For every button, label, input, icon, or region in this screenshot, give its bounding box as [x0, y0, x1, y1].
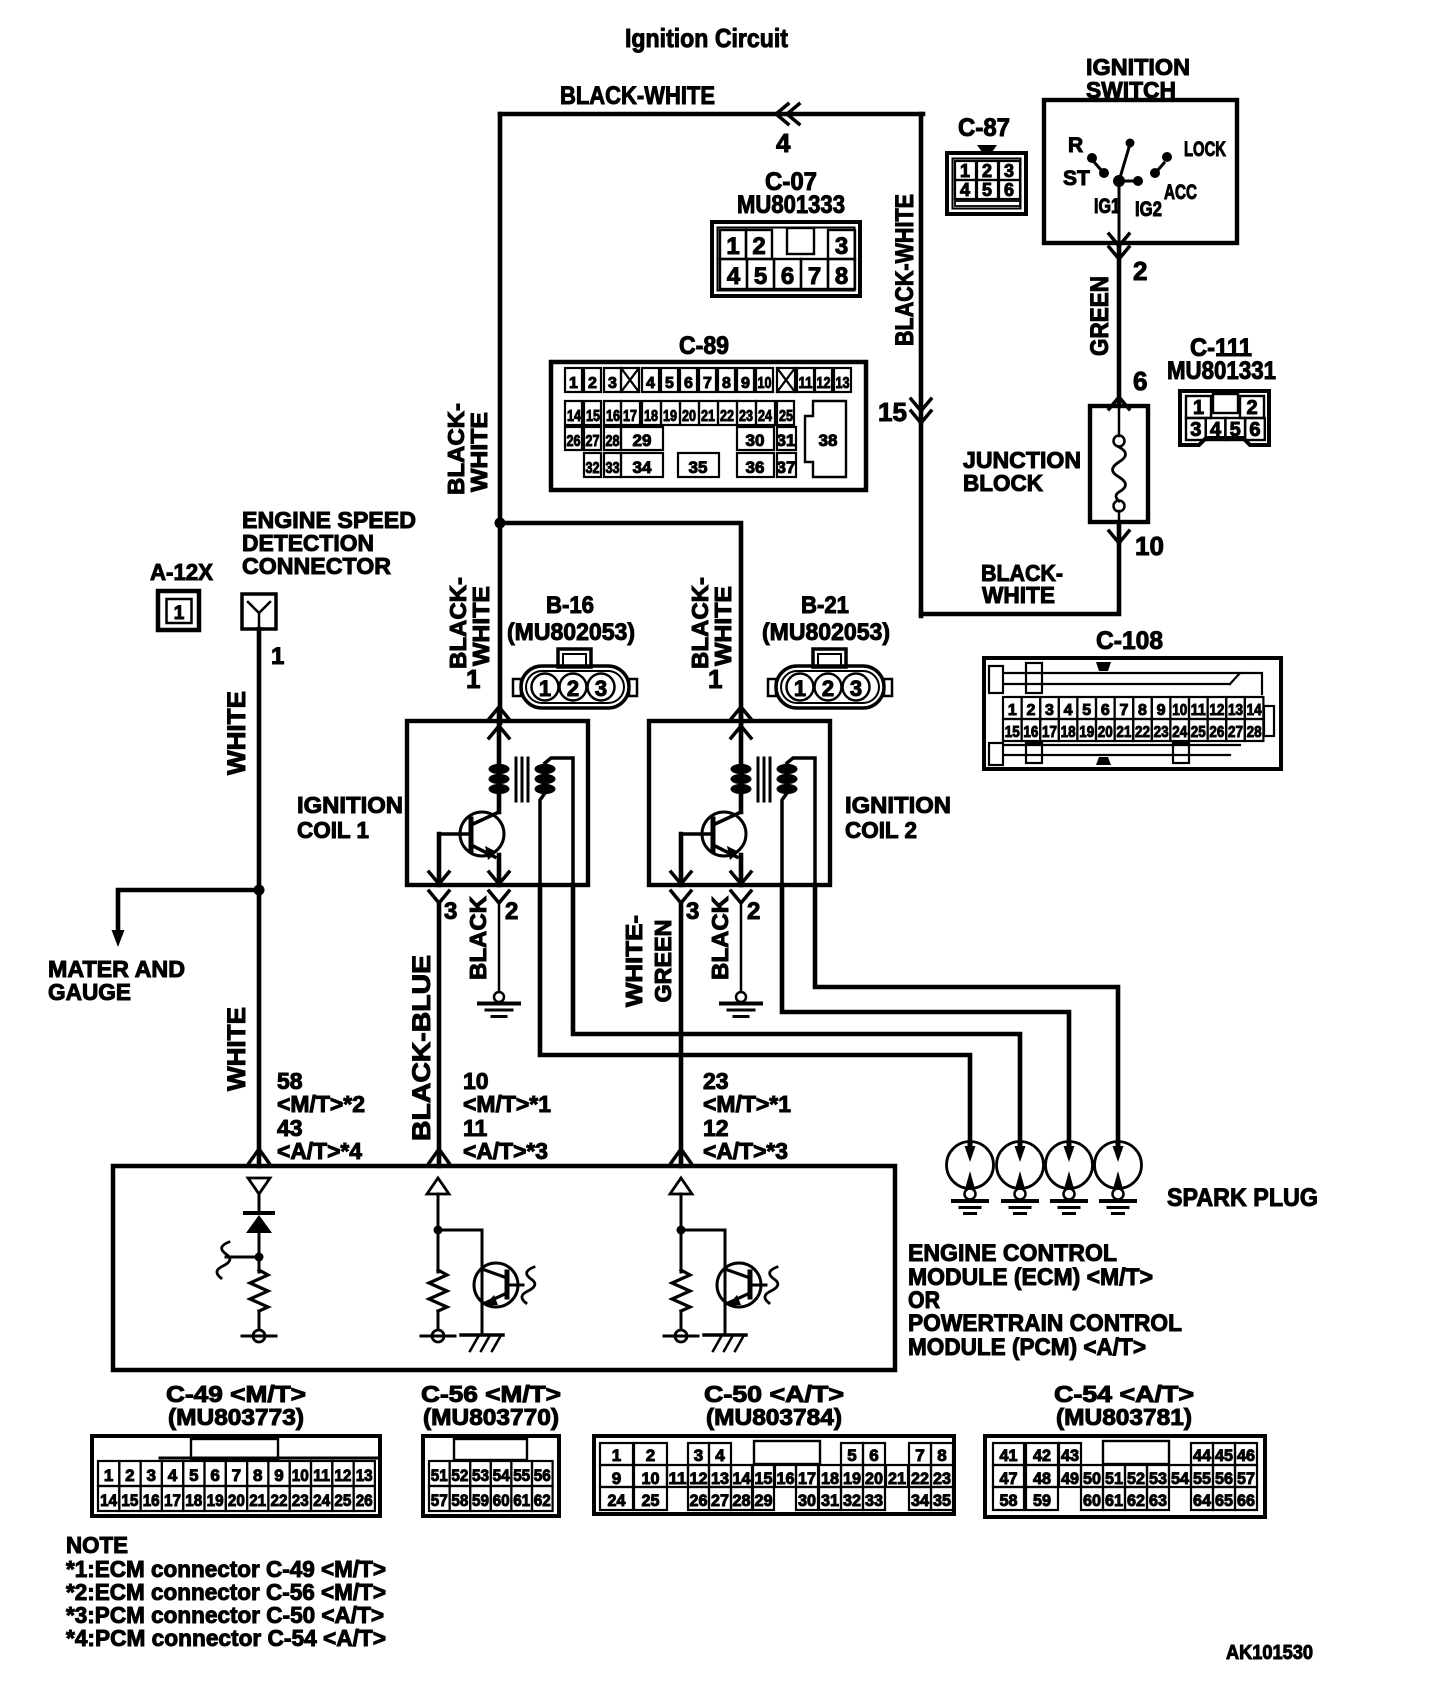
svg-text:6: 6 [1133, 366, 1147, 396]
svg-text:3: 3 [608, 375, 617, 392]
node (ECM diode branch) [255, 1253, 264, 1262]
svg-text:2: 2 [505, 898, 518, 925]
svg-text:13: 13 [1228, 702, 1243, 719]
svg-text:2: 2 [1133, 256, 1147, 286]
svg-text:7: 7 [915, 1446, 924, 1465]
svg-text:50: 50 [1083, 1469, 1101, 1488]
svg-text:63: 63 [1149, 1491, 1167, 1510]
svg-text:(MU803770): (MU803770) [423, 1404, 559, 1430]
svg-text:3: 3 [1004, 161, 1014, 181]
resistor (ECM left) [250, 1270, 268, 1311]
svg-text:7: 7 [703, 375, 712, 392]
svg-text:14: 14 [100, 1491, 117, 1510]
svg-text:61: 61 [1105, 1491, 1123, 1510]
wire: coil2 secondary to spark plug 4 [815, 885, 1118, 1146]
svg-text:MU801333: MU801333 [737, 191, 845, 219]
svg-text:WHITE: WHITE [982, 582, 1055, 608]
svg-text:<M/T>*1: <M/T>*1 [703, 1091, 791, 1117]
svg-text:49: 49 [1061, 1469, 1079, 1488]
svg-text:2: 2 [588, 375, 597, 392]
svg-text:20: 20 [228, 1491, 245, 1510]
svg-text:2: 2 [752, 233, 765, 260]
svg-text:(MU802053): (MU802053) [507, 619, 635, 646]
svg-text:60: 60 [493, 1491, 510, 1510]
svg-text:24: 24 [608, 1491, 627, 1510]
svg-text:7: 7 [808, 263, 821, 290]
svg-text:34: 34 [633, 458, 652, 477]
svg-text:54: 54 [1171, 1469, 1190, 1488]
svg-text:ST: ST [1063, 167, 1090, 190]
svg-text:66: 66 [1237, 1491, 1255, 1510]
svg-text:58: 58 [451, 1491, 468, 1510]
svg-text:24: 24 [758, 408, 772, 425]
svg-text:31: 31 [777, 431, 796, 450]
svg-text:SPARK PLUG: SPARK PLUG [1167, 1184, 1318, 1212]
svg-text:9: 9 [741, 375, 750, 392]
svg-text:18: 18 [185, 1491, 202, 1510]
svg-text:55: 55 [1193, 1469, 1211, 1488]
svg-text:15: 15 [121, 1491, 138, 1510]
svg-text:19: 19 [207, 1491, 224, 1510]
Coil 1 secondary leads [545, 758, 573, 885]
svg-text:8: 8 [722, 375, 731, 392]
svg-text:2: 2 [125, 1466, 134, 1485]
wire: WHITE-GREEN coil2 pin3 to ECM [679, 903, 684, 1166]
svg-text:23: 23 [739, 408, 753, 425]
svg-text:1: 1 [104, 1466, 113, 1485]
inline connector chevrons on right vertical, pin 15 [911, 399, 931, 411]
svg-text:MODULE (PCM) <A/T>: MODULE (PCM) <A/T> [908, 1334, 1146, 1361]
svg-text:4: 4 [1210, 419, 1222, 441]
svg-text:<M/T>*1: <M/T>*1 [463, 1091, 551, 1117]
svg-text:(MU802053): (MU802053) [762, 619, 890, 646]
svg-text:(MU803781): (MU803781) [1056, 1404, 1192, 1430]
svg-text:24: 24 [1172, 724, 1187, 741]
svg-text:16: 16 [1023, 724, 1038, 741]
svg-text:1: 1 [726, 233, 739, 260]
svg-text:22: 22 [911, 1469, 929, 1488]
svg-text:3: 3 [835, 233, 848, 260]
switch contact LOCK [1162, 152, 1172, 162]
svg-text:45: 45 [1215, 1446, 1233, 1465]
svg-text:5: 5 [665, 375, 674, 392]
svg-text:2: 2 [822, 676, 834, 701]
wire: BLACK-BLUE coil1 pin3 to ECM [437, 903, 442, 1166]
svg-text:23: 23 [933, 1469, 951, 1488]
connector C-87 body [947, 153, 1026, 214]
diode (ECM) [245, 1211, 273, 1215]
svg-text:15: 15 [755, 1469, 773, 1488]
C-50 pins row3 [600, 1487, 633, 1510]
resistor (ECM driver) [672, 1270, 690, 1311]
svg-text:41: 41 [1000, 1446, 1018, 1465]
svg-text:A-12X: A-12X [150, 559, 214, 585]
ground (Coil 2 pin2) [740, 905, 743, 992]
svg-text:15: 15 [1005, 724, 1020, 741]
svg-text:1: 1 [569, 375, 578, 392]
svg-text:C-108: C-108 [1096, 627, 1163, 655]
ignition switch box [1044, 100, 1237, 243]
C-54 pins row3 [993, 1487, 1024, 1510]
svg-text:14: 14 [567, 408, 581, 425]
svg-text:1: 1 [271, 643, 284, 670]
wire: bottom horizontal to junction block [921, 524, 1119, 614]
svg-text:27: 27 [1228, 724, 1243, 741]
wire: branch to mater and gauge [118, 890, 259, 932]
wire: WHITE from engine speed detection connector [257, 629, 262, 890]
svg-text:28: 28 [1247, 724, 1262, 741]
svg-text:BLACK: BLACK [465, 896, 491, 980]
wire: WHITE continues to ECM [257, 890, 262, 1166]
ground (Coil 1 pin2) [498, 905, 501, 992]
node [434, 1226, 443, 1235]
svg-text:COIL 1: COIL 1 [297, 817, 369, 843]
svg-text:28: 28 [733, 1491, 751, 1510]
svg-text:<M/T>*2: <M/T>*2 [277, 1091, 365, 1117]
svg-text:26: 26 [567, 433, 581, 450]
svg-text:10: 10 [1172, 702, 1187, 719]
svg-text:8: 8 [937, 1446, 946, 1465]
C-50 pins row1 [600, 1443, 633, 1465]
svg-text:35: 35 [689, 458, 708, 477]
C-108 pins row1 [1003, 697, 1022, 719]
svg-text:61: 61 [513, 1491, 530, 1510]
C-07 pins row2 [720, 259, 747, 289]
svg-text:52: 52 [451, 1466, 468, 1485]
svg-text:17: 17 [798, 1469, 816, 1488]
svg-text:ENGINE CONTROL: ENGINE CONTROL [908, 1240, 1117, 1267]
svg-text:30: 30 [798, 1491, 816, 1510]
svg-text:18: 18 [1061, 724, 1076, 741]
svg-text:10: 10 [1135, 531, 1164, 561]
svg-text:18: 18 [644, 408, 658, 425]
junction node (500,523) [495, 518, 506, 529]
svg-text:2: 2 [567, 676, 579, 701]
C-89 pin 38 cavity [805, 401, 846, 477]
svg-text:18: 18 [821, 1469, 839, 1488]
svg-text:6: 6 [210, 1466, 219, 1485]
svg-text:12: 12 [1209, 702, 1224, 719]
svg-text:46: 46 [1237, 1446, 1255, 1465]
svg-text:2: 2 [747, 898, 760, 925]
svg-text:MU801331: MU801331 [1167, 357, 1276, 385]
svg-text:42: 42 [1033, 1446, 1051, 1465]
Coil 2 primary winding [739, 714, 744, 764]
wire: BLACK-WHITE right vertical (from junction block return) [919, 114, 924, 616]
svg-text:62: 62 [534, 1491, 551, 1510]
Coil 2 transformer core [757, 758, 760, 801]
switch contact ST [1099, 168, 1109, 178]
svg-text:11: 11 [1191, 702, 1206, 719]
chevron into junction block [1109, 397, 1129, 409]
svg-text:14: 14 [1247, 702, 1262, 719]
wire: GREEN to junction block [1117, 243, 1122, 406]
resistor (ECM driver) [429, 1270, 447, 1311]
terminal (ECM driver) [675, 1330, 687, 1342]
connector C-07 body [712, 222, 860, 296]
C-50 pins row2 [600, 1465, 633, 1487]
svg-text:LOCK: LOCK [1184, 138, 1226, 161]
svg-text:34: 34 [911, 1491, 930, 1510]
connector C-111 body [1180, 391, 1269, 445]
C-108 pins row2 [1003, 719, 1022, 741]
Coil 2 exit chevrons pins 3 and 2 [671, 872, 691, 884]
wire: coil1 secondary to spark plug 1 [540, 885, 970, 1146]
svg-text:33: 33 [606, 460, 620, 477]
chevron into ECM (black-blue) [429, 1149, 449, 1163]
wire: BLACK-WHITE left vertical to ignition coil 1 [498, 114, 503, 723]
Coil 2 box [649, 721, 830, 885]
ECM driver transistor [438, 1230, 482, 1334]
svg-text:4: 4 [1064, 702, 1073, 719]
svg-text:2: 2 [1246, 397, 1257, 419]
svg-text:6: 6 [684, 375, 693, 392]
engine speed detection connector body (Y) [242, 594, 276, 629]
Coil 1 primary winding [497, 714, 502, 764]
svg-text:2: 2 [982, 161, 992, 181]
svg-text:43: 43 [1061, 1446, 1079, 1465]
svg-text:21: 21 [701, 408, 715, 425]
svg-text:CONNECTOR: CONNECTOR [242, 553, 391, 579]
svg-text:19: 19 [843, 1469, 861, 1488]
svg-text:GAUGE: GAUGE [48, 979, 131, 1005]
svg-text:(MU803773): (MU803773) [168, 1404, 304, 1430]
ECM box [113, 1166, 895, 1370]
chassis ground (ECM driver) [461, 1333, 503, 1337]
svg-text:3: 3 [1045, 702, 1054, 719]
ECM diode branch wire [258, 1194, 261, 1213]
svg-text:7: 7 [232, 1466, 241, 1485]
svg-text:Ignition Circuit: Ignition Circuit [625, 23, 788, 53]
Coil 1 box [407, 721, 588, 885]
svg-text:57: 57 [431, 1491, 448, 1510]
svg-text:12: 12 [334, 1466, 351, 1485]
svg-text:1: 1 [794, 676, 806, 701]
svg-text:16: 16 [777, 1469, 795, 1488]
transistor output squiggle [752, 1284, 766, 1287]
connector C-49 body [92, 1436, 380, 1516]
svg-text:21: 21 [888, 1469, 906, 1488]
C-108 right edge tab [1264, 706, 1274, 736]
svg-text:5: 5 [754, 263, 767, 290]
svg-text:4: 4 [168, 1466, 178, 1485]
svg-text:11: 11 [313, 1466, 330, 1485]
svg-text:3: 3 [850, 676, 862, 701]
svg-text:25: 25 [779, 408, 793, 425]
svg-text:1: 1 [708, 664, 722, 694]
svg-text:14: 14 [733, 1469, 752, 1488]
svg-text:BLACK: BLACK [707, 896, 733, 980]
svg-text:20: 20 [682, 408, 696, 425]
svg-text:59: 59 [472, 1491, 489, 1510]
svg-text:30: 30 [746, 431, 765, 450]
switch contact R [1087, 153, 1097, 163]
svg-text:WHITE-: WHITE- [621, 915, 647, 1007]
svg-text:55: 55 [513, 1466, 530, 1485]
svg-text:11: 11 [799, 375, 813, 392]
svg-text:4: 4 [776, 128, 791, 158]
svg-text:15: 15 [586, 408, 600, 425]
C-07 pins row1 [720, 230, 746, 259]
svg-text:POWERTRAIN CONTROL: POWERTRAIN CONTROL [908, 1310, 1182, 1337]
connector B-16 body [558, 649, 591, 667]
svg-text:23: 23 [1154, 724, 1169, 741]
connector C-108 body [984, 658, 1281, 769]
svg-text:26: 26 [356, 1491, 373, 1510]
C-89 pins row1 [565, 368, 582, 392]
svg-text:64: 64 [1193, 1491, 1212, 1510]
connector C-54 body [985, 1436, 1265, 1517]
spark plug 4 [1095, 1142, 1142, 1189]
svg-text:GREEN: GREEN [650, 920, 676, 1003]
svg-text:52: 52 [1127, 1469, 1145, 1488]
svg-text:56: 56 [534, 1466, 551, 1485]
C-108 bottom latch detail [1004, 744, 1240, 746]
svg-text:19: 19 [663, 408, 677, 425]
svg-text:22: 22 [1135, 724, 1150, 741]
svg-text:5: 5 [1082, 702, 1091, 719]
svg-text:13: 13 [836, 375, 850, 392]
svg-text:51: 51 [1105, 1469, 1123, 1488]
C-54 pins row1 [993, 1443, 1024, 1465]
svg-text:32: 32 [843, 1491, 861, 1510]
connector C-56 body [423, 1436, 559, 1516]
svg-text:25: 25 [334, 1491, 351, 1510]
svg-text:16: 16 [606, 408, 620, 425]
svg-text:IGNITION: IGNITION [845, 792, 951, 818]
svg-text:<A/T>*4: <A/T>*4 [277, 1138, 362, 1164]
svg-text:9: 9 [612, 1469, 621, 1488]
wire: branch to ignition coil 2 [500, 523, 741, 723]
svg-text:47: 47 [1000, 1469, 1018, 1488]
svg-text:6: 6 [1249, 419, 1260, 441]
wire: BLACK-WHITE trunk, top horizontal [500, 112, 923, 117]
svg-text:17: 17 [164, 1491, 181, 1510]
svg-text:4: 4 [646, 375, 655, 392]
svg-text:54: 54 [493, 1466, 510, 1485]
svg-text:29: 29 [755, 1491, 773, 1510]
svg-text:65: 65 [1215, 1491, 1233, 1510]
svg-text:20: 20 [865, 1469, 883, 1488]
junction node (259,890) [254, 885, 265, 896]
svg-text:8: 8 [835, 263, 848, 290]
transistor output squiggle [509, 1284, 523, 1287]
svg-text:17: 17 [1042, 724, 1057, 741]
Coil 2 secondary leads [787, 758, 815, 885]
svg-text:3: 3 [444, 898, 457, 925]
svg-text:B-21: B-21 [801, 592, 849, 619]
svg-text:*4:PCM connector C-54 <A/T>: *4:PCM connector C-54 <A/T> [66, 1625, 386, 1651]
connector C-89 body [551, 362, 866, 490]
wire: coil2 secondary to spark plug 3 [782, 885, 1069, 1146]
svg-text:3: 3 [595, 676, 607, 701]
svg-text:WHITE: WHITE [466, 412, 492, 492]
svg-text:BLOCK: BLOCK [963, 470, 1043, 496]
svg-text:WHITE: WHITE [223, 1007, 251, 1091]
svg-text:1: 1 [960, 161, 970, 181]
svg-text:51: 51 [431, 1466, 448, 1485]
svg-text:C-89: C-89 [679, 332, 729, 360]
svg-text:IG2: IG2 [1135, 198, 1162, 221]
C-89 pins row4 [584, 453, 601, 477]
svg-text:12: 12 [690, 1469, 708, 1488]
svg-text:20: 20 [1098, 724, 1113, 741]
svg-text:15: 15 [878, 397, 907, 427]
wire: ignition switch output [1118, 187, 1121, 243]
svg-text:24: 24 [313, 1491, 330, 1510]
svg-text:17: 17 [623, 408, 637, 425]
svg-text:37: 37 [777, 458, 796, 477]
terminal (ECM left) [253, 1330, 265, 1342]
svg-text:4: 4 [715, 1446, 725, 1465]
switch contact IG2 [1133, 176, 1143, 186]
svg-text:IG1: IG1 [1094, 195, 1120, 218]
svg-text:44: 44 [1193, 1446, 1212, 1465]
svg-text:3: 3 [1190, 419, 1201, 441]
svg-text:22: 22 [720, 408, 734, 425]
svg-text:1: 1 [612, 1446, 621, 1465]
connector chevrons at switch exit [1109, 234, 1129, 246]
svg-text:21: 21 [1116, 724, 1131, 741]
chevron into ECM (white wire) [249, 1149, 269, 1163]
svg-text:BLACK-WHITE: BLACK-WHITE [560, 82, 715, 110]
svg-text:AK101530: AK101530 [1226, 1642, 1313, 1664]
spark plug 3 [1046, 1142, 1093, 1189]
svg-text:2: 2 [646, 1446, 655, 1465]
Coil 1 exit chevrons pins 3 and 2 [429, 872, 449, 884]
ECM input marker (x=681) [670, 1178, 692, 1194]
svg-text:BLACK-WHITE: BLACK-WHITE [891, 194, 919, 346]
C-89 pins row3 [565, 427, 582, 450]
svg-text:7: 7 [1119, 702, 1128, 719]
svg-text:10: 10 [642, 1469, 660, 1488]
svg-text:1: 1 [1193, 397, 1204, 419]
svg-text:IGNITION: IGNITION [297, 792, 403, 818]
svg-text:12: 12 [817, 375, 831, 392]
svg-text:13: 13 [356, 1466, 373, 1485]
connector C-50 body [594, 1436, 954, 1514]
svg-text:23: 23 [292, 1491, 309, 1510]
node [677, 1226, 686, 1235]
Coil 2 secondary winding [777, 764, 798, 774]
svg-text:9: 9 [1157, 702, 1166, 719]
svg-text:6: 6 [1004, 180, 1014, 200]
svg-text:4: 4 [960, 180, 970, 200]
svg-text:21: 21 [249, 1491, 266, 1510]
svg-text:1: 1 [174, 603, 185, 624]
svg-text:57: 57 [1237, 1469, 1255, 1488]
wire chevrons into Coil 1 [489, 707, 509, 719]
svg-text:5: 5 [847, 1446, 856, 1465]
svg-text:1: 1 [539, 676, 551, 701]
connector A-12X body [158, 591, 199, 630]
svg-text:8: 8 [253, 1466, 262, 1485]
svg-text:62: 62 [1127, 1491, 1145, 1510]
svg-text:26: 26 [1209, 724, 1224, 741]
svg-text:10: 10 [292, 1466, 309, 1485]
svg-text:11: 11 [669, 1469, 687, 1488]
svg-text:10: 10 [758, 375, 772, 392]
svg-text:60: 60 [1083, 1491, 1101, 1510]
svg-text:R: R [1068, 134, 1083, 157]
svg-text:13: 13 [711, 1469, 729, 1488]
inline connector chevrons << on top wire [776, 104, 788, 124]
C-54 pins row2 [993, 1465, 1024, 1487]
svg-text:MODULE (ECM) <M/T>: MODULE (ECM) <M/T> [908, 1264, 1153, 1291]
svg-text:6: 6 [869, 1446, 878, 1465]
svg-text:<A/T>*3: <A/T>*3 [463, 1138, 548, 1164]
svg-text:53: 53 [472, 1466, 489, 1485]
